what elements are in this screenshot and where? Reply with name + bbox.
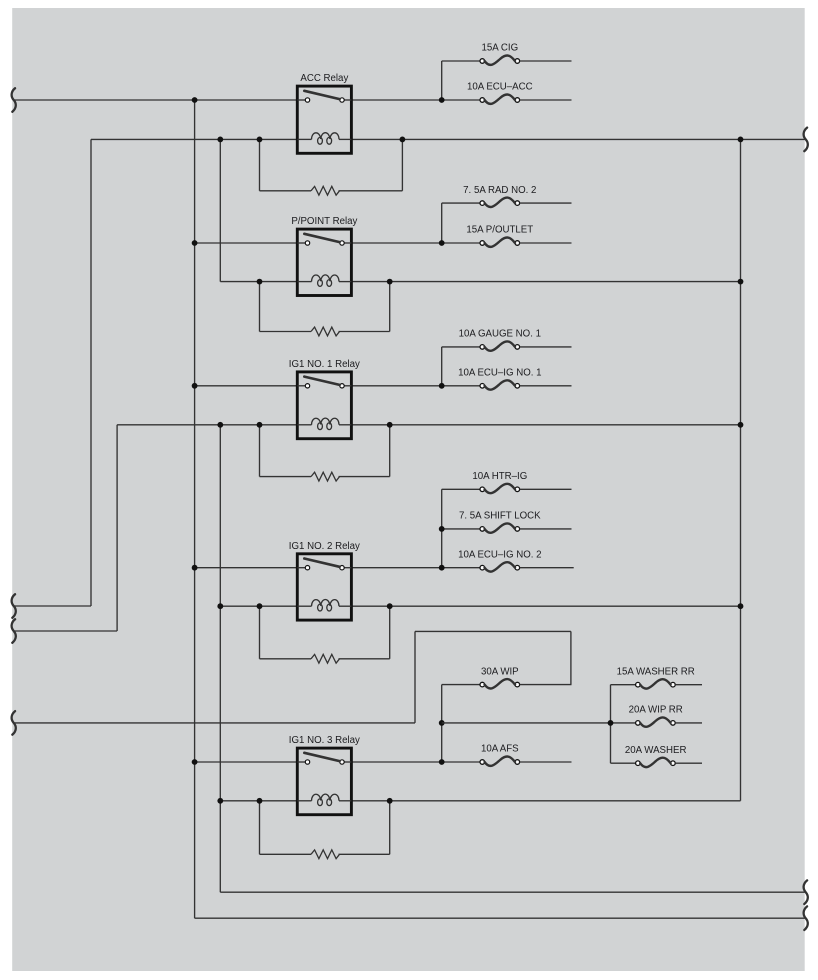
svg-text:7. 5A SHIFT LOCK: 7. 5A SHIFT LOCK: [459, 511, 541, 522]
svg-text:ACC Relay: ACC Relay: [300, 73, 348, 84]
svg-text:IG1 NO. 2 Relay: IG1 NO. 2 Relay: [289, 541, 360, 552]
svg-text:20A WIP RR: 20A WIP RR: [629, 705, 683, 716]
svg-text:10A GAUGE NO. 1: 10A GAUGE NO. 1: [459, 329, 541, 340]
svg-text:10A ECU–IG NO. 2: 10A ECU–IG NO. 2: [458, 549, 541, 560]
svg-text:10A HTR–IG: 10A HTR–IG: [472, 471, 527, 482]
svg-text:30A WIP: 30A WIP: [481, 666, 519, 677]
svg-text:IG1 NO. 3 Relay: IG1 NO. 3 Relay: [289, 735, 360, 746]
svg-text:IG1 NO. 1 Relay: IG1 NO. 1 Relay: [289, 359, 360, 370]
svg-text:P/POINT Relay: P/POINT Relay: [291, 216, 357, 227]
svg-text:10A ECU–ACC: 10A ECU–ACC: [467, 82, 533, 93]
svg-text:10A AFS: 10A AFS: [481, 744, 519, 755]
svg-text:15A CIG: 15A CIG: [481, 43, 518, 54]
svg-text:15A WASHER RR: 15A WASHER RR: [617, 666, 695, 677]
svg-text:15A P/OUTLET: 15A P/OUTLET: [466, 225, 533, 236]
svg-text:7. 5A RAD NO. 2: 7. 5A RAD NO. 2: [463, 185, 536, 196]
svg-text:20A WASHER: 20A WASHER: [625, 745, 687, 756]
svg-text:10A ECU–IG NO. 1: 10A ECU–IG NO. 1: [458, 368, 541, 379]
